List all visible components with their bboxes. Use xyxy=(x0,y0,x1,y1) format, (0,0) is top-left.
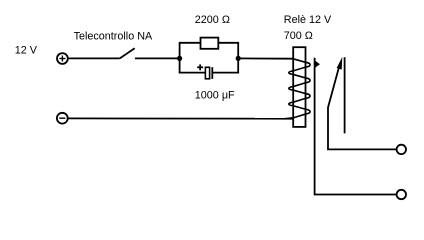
wire left vertical of RC network xyxy=(179,43,181,73)
output terminal upper xyxy=(397,145,406,154)
capacitor C1 positive plate (box) xyxy=(205,67,209,79)
resistor R1 2200 ohm xyxy=(201,38,219,49)
node A junction dot xyxy=(177,56,182,61)
wire right vertical of RC network xyxy=(237,43,239,73)
output terminal lower xyxy=(397,190,406,199)
svg-text:2200 Ω: 2200 Ω xyxy=(195,14,230,26)
battery negative terminal xyxy=(57,113,68,124)
relay coil winding xyxy=(285,59,310,119)
svg-text:Relè 12 V: Relè 12 V xyxy=(284,14,332,26)
relay contact common line (armature) xyxy=(315,58,397,195)
capacitor C1 negative plate xyxy=(211,67,213,79)
wire bottom branch left to capacitor xyxy=(179,72,206,74)
relay fixed contact line xyxy=(344,57,346,133)
wire from + terminal to switch xyxy=(68,57,120,59)
svg-text:700 Ω: 700 Ω xyxy=(284,30,313,42)
svg-text:1000 μF: 1000 μF xyxy=(195,89,235,101)
wire node B to relay coil xyxy=(238,57,293,59)
wire capacitor to right vertical xyxy=(213,72,239,74)
wire from switch to node A xyxy=(135,57,180,59)
wire from - terminal to coil bottom xyxy=(68,117,293,119)
wire top branch to resistor xyxy=(179,42,201,44)
node B junction dot xyxy=(236,56,241,61)
svg-text:12 V: 12 V xyxy=(15,44,38,56)
relay moving blade xyxy=(328,66,397,149)
contact point triangle on common line xyxy=(315,61,319,67)
wire resistor to right vertical xyxy=(218,42,239,44)
svg-text:Telecontrollo NA: Telecontrollo NA xyxy=(74,31,153,43)
polarity plus sign xyxy=(197,64,203,70)
relay coil core rectangle xyxy=(293,47,305,127)
switch S1 blade (Telecontrollo NA) xyxy=(120,48,135,58)
battery positive terminal xyxy=(57,53,68,64)
blade arrowhead xyxy=(337,57,343,70)
